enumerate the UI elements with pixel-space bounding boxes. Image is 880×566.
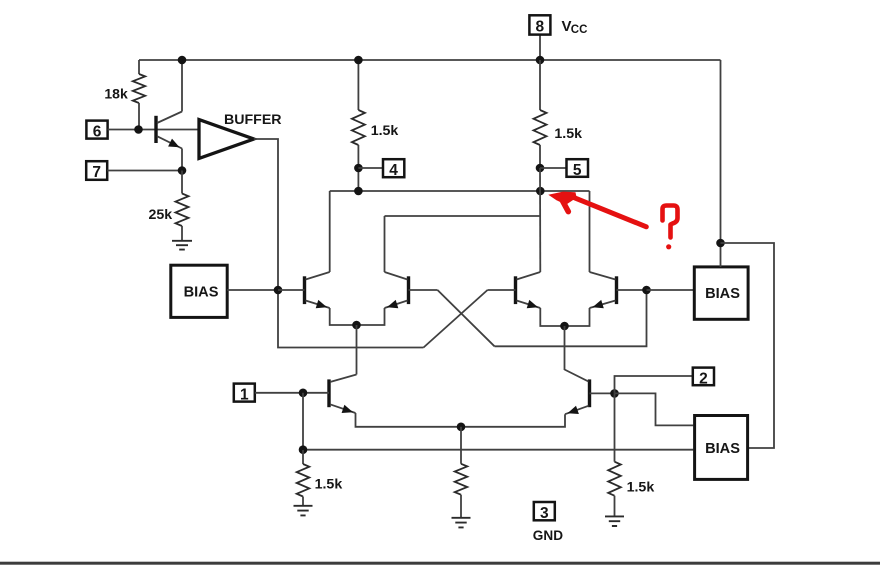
wire QB base xyxy=(590,392,615,394)
wire left pair tail xyxy=(356,325,358,375)
pin 5 box xyxy=(567,159,589,177)
node pin5 xyxy=(536,164,545,173)
resistor 1.5k left emitter xyxy=(302,450,304,464)
node pin5 on bus xyxy=(536,187,545,196)
transistor QL1 left outer xyxy=(303,276,306,304)
svg-text:1.5k: 1.5k xyxy=(371,123,399,139)
wire QB base to pin2 xyxy=(615,376,693,393)
wire right rail down from top rail xyxy=(720,60,722,243)
wire inner collector bus y216 xyxy=(385,215,541,217)
wire pin5 vertical to right inner collector xyxy=(539,168,541,272)
wire buffer output down left LO line xyxy=(254,139,424,348)
BIAS U2 box left xyxy=(171,265,227,317)
node QB base xyxy=(610,389,619,398)
wire QB base to BIAS3 xyxy=(615,393,694,425)
node pin4 xyxy=(354,164,363,173)
wire pin4 lead xyxy=(358,167,383,169)
svg-text:1.5k: 1.5k xyxy=(627,480,655,496)
wire Q1 collector vertical xyxy=(181,60,183,112)
red question mark xyxy=(663,206,678,238)
wire right rail to BIAS3 xyxy=(721,243,775,448)
wire QL2 base to cross xyxy=(409,289,438,291)
wire pin6 to buffer input xyxy=(108,129,199,131)
transistor QR2 right outer xyxy=(615,276,618,304)
ground under 25k xyxy=(172,241,192,250)
svg-text:4: 4 xyxy=(389,162,398,179)
svg-text:25k: 25k xyxy=(149,207,173,223)
svg-text:7: 7 xyxy=(92,164,101,181)
svg-text:1: 1 xyxy=(240,386,249,403)
node pin4 on bus xyxy=(354,187,363,196)
svg-text:BIAS: BIAS xyxy=(705,286,740,302)
svg-text:BIAS: BIAS xyxy=(705,441,740,457)
ground under center resistor xyxy=(452,518,471,528)
svg-text:1.5k: 1.5k xyxy=(554,126,582,142)
wire pin5 lead xyxy=(540,167,567,169)
red annotation arrow xyxy=(548,192,576,205)
wire BIAS2 to node xyxy=(647,289,694,291)
pin 2 box xyxy=(693,368,714,386)
ground under left 1.5k xyxy=(294,506,313,516)
svg-text:BIAS: BIAS xyxy=(184,284,219,300)
wire QR2 base xyxy=(617,289,647,291)
wire right pair tail xyxy=(564,326,566,370)
node right pair emitters xyxy=(560,322,569,331)
pin 8 box xyxy=(529,15,550,34)
op-amp U1 buffer xyxy=(199,120,254,159)
wire pin1 to QA base xyxy=(255,392,329,394)
resistor 18k xyxy=(138,60,140,74)
wire QR1 base from cross xyxy=(488,289,516,291)
transistor Q1 xyxy=(154,116,157,143)
transistor QL2 left inner xyxy=(407,276,410,304)
node pin1 / emitter resistor xyxy=(299,389,308,398)
resistor 25k xyxy=(181,171,183,194)
wire BIAS1 to quad xyxy=(227,289,278,291)
node buffer line / BIAS1 xyxy=(274,286,283,295)
wire right LO line xyxy=(495,290,647,346)
resistor center tail xyxy=(460,427,462,464)
pin 7 box xyxy=(86,161,107,180)
node pin7/25k junction xyxy=(178,166,187,175)
node rail/Q1 collector xyxy=(178,56,187,65)
wire emitter degeneration bus y450 xyxy=(303,449,693,451)
resistor 1.5k right emitter xyxy=(614,393,616,461)
BIAS U4 box right lower xyxy=(695,416,748,480)
wire left outer collector drop xyxy=(329,191,331,272)
BIAS U3 box right upper xyxy=(694,267,748,319)
wire collector bus y191 xyxy=(330,190,590,192)
pin 6 box xyxy=(86,121,107,139)
node right rail / BIAS2 xyxy=(716,239,725,248)
node left R junction xyxy=(299,445,308,454)
node lower pair emitters xyxy=(457,423,466,432)
wire QL1 base xyxy=(278,289,305,291)
resistor 1.5k pin5 load xyxy=(539,60,541,110)
pin 1 box xyxy=(234,384,255,402)
svg-text:GND: GND xyxy=(533,528,563,543)
wire VCC top rail xyxy=(139,59,721,61)
transistor QR1 right inner xyxy=(514,276,517,304)
transistor QB lower right xyxy=(588,379,591,407)
wire pin1 node down xyxy=(302,393,304,450)
wire cross diagonal B xyxy=(424,290,488,348)
node rail/R pin4 xyxy=(354,56,363,65)
pin 3 box xyxy=(534,502,555,520)
wire left inner collector drop xyxy=(384,216,386,272)
svg-text:CC: CC xyxy=(571,24,588,36)
svg-text:BUFFER: BUFFER xyxy=(224,112,282,128)
svg-text:5: 5 xyxy=(573,162,582,179)
node at pin8/rail xyxy=(536,56,545,65)
svg-text:8: 8 xyxy=(535,18,544,35)
node QR2 base / BIAS2 xyxy=(642,286,651,295)
node left pair emitters xyxy=(352,321,361,330)
wire right outer collector drop xyxy=(589,191,591,272)
transistor QA lower left xyxy=(327,379,330,407)
wire pin7 to emitter node xyxy=(107,170,182,172)
wire Q1 emitter to pin7 node xyxy=(181,149,183,171)
ground under right 1.5k xyxy=(605,516,624,526)
svg-text:6: 6 xyxy=(93,123,102,140)
svg-text:18k: 18k xyxy=(104,86,128,102)
svg-text:3: 3 xyxy=(540,505,549,522)
resistor 1.5k pin4 load xyxy=(357,60,359,110)
node pin6/18k junction xyxy=(134,125,143,134)
svg-text:1.5k: 1.5k xyxy=(315,477,343,493)
svg-text:2: 2 xyxy=(699,370,708,387)
wire cross diagonal A xyxy=(438,290,495,346)
bottom rule xyxy=(0,562,880,565)
wire pin8 lead to rail xyxy=(539,35,541,60)
wire BIAS2 top feed xyxy=(720,243,722,267)
pin 4 box xyxy=(383,159,404,177)
